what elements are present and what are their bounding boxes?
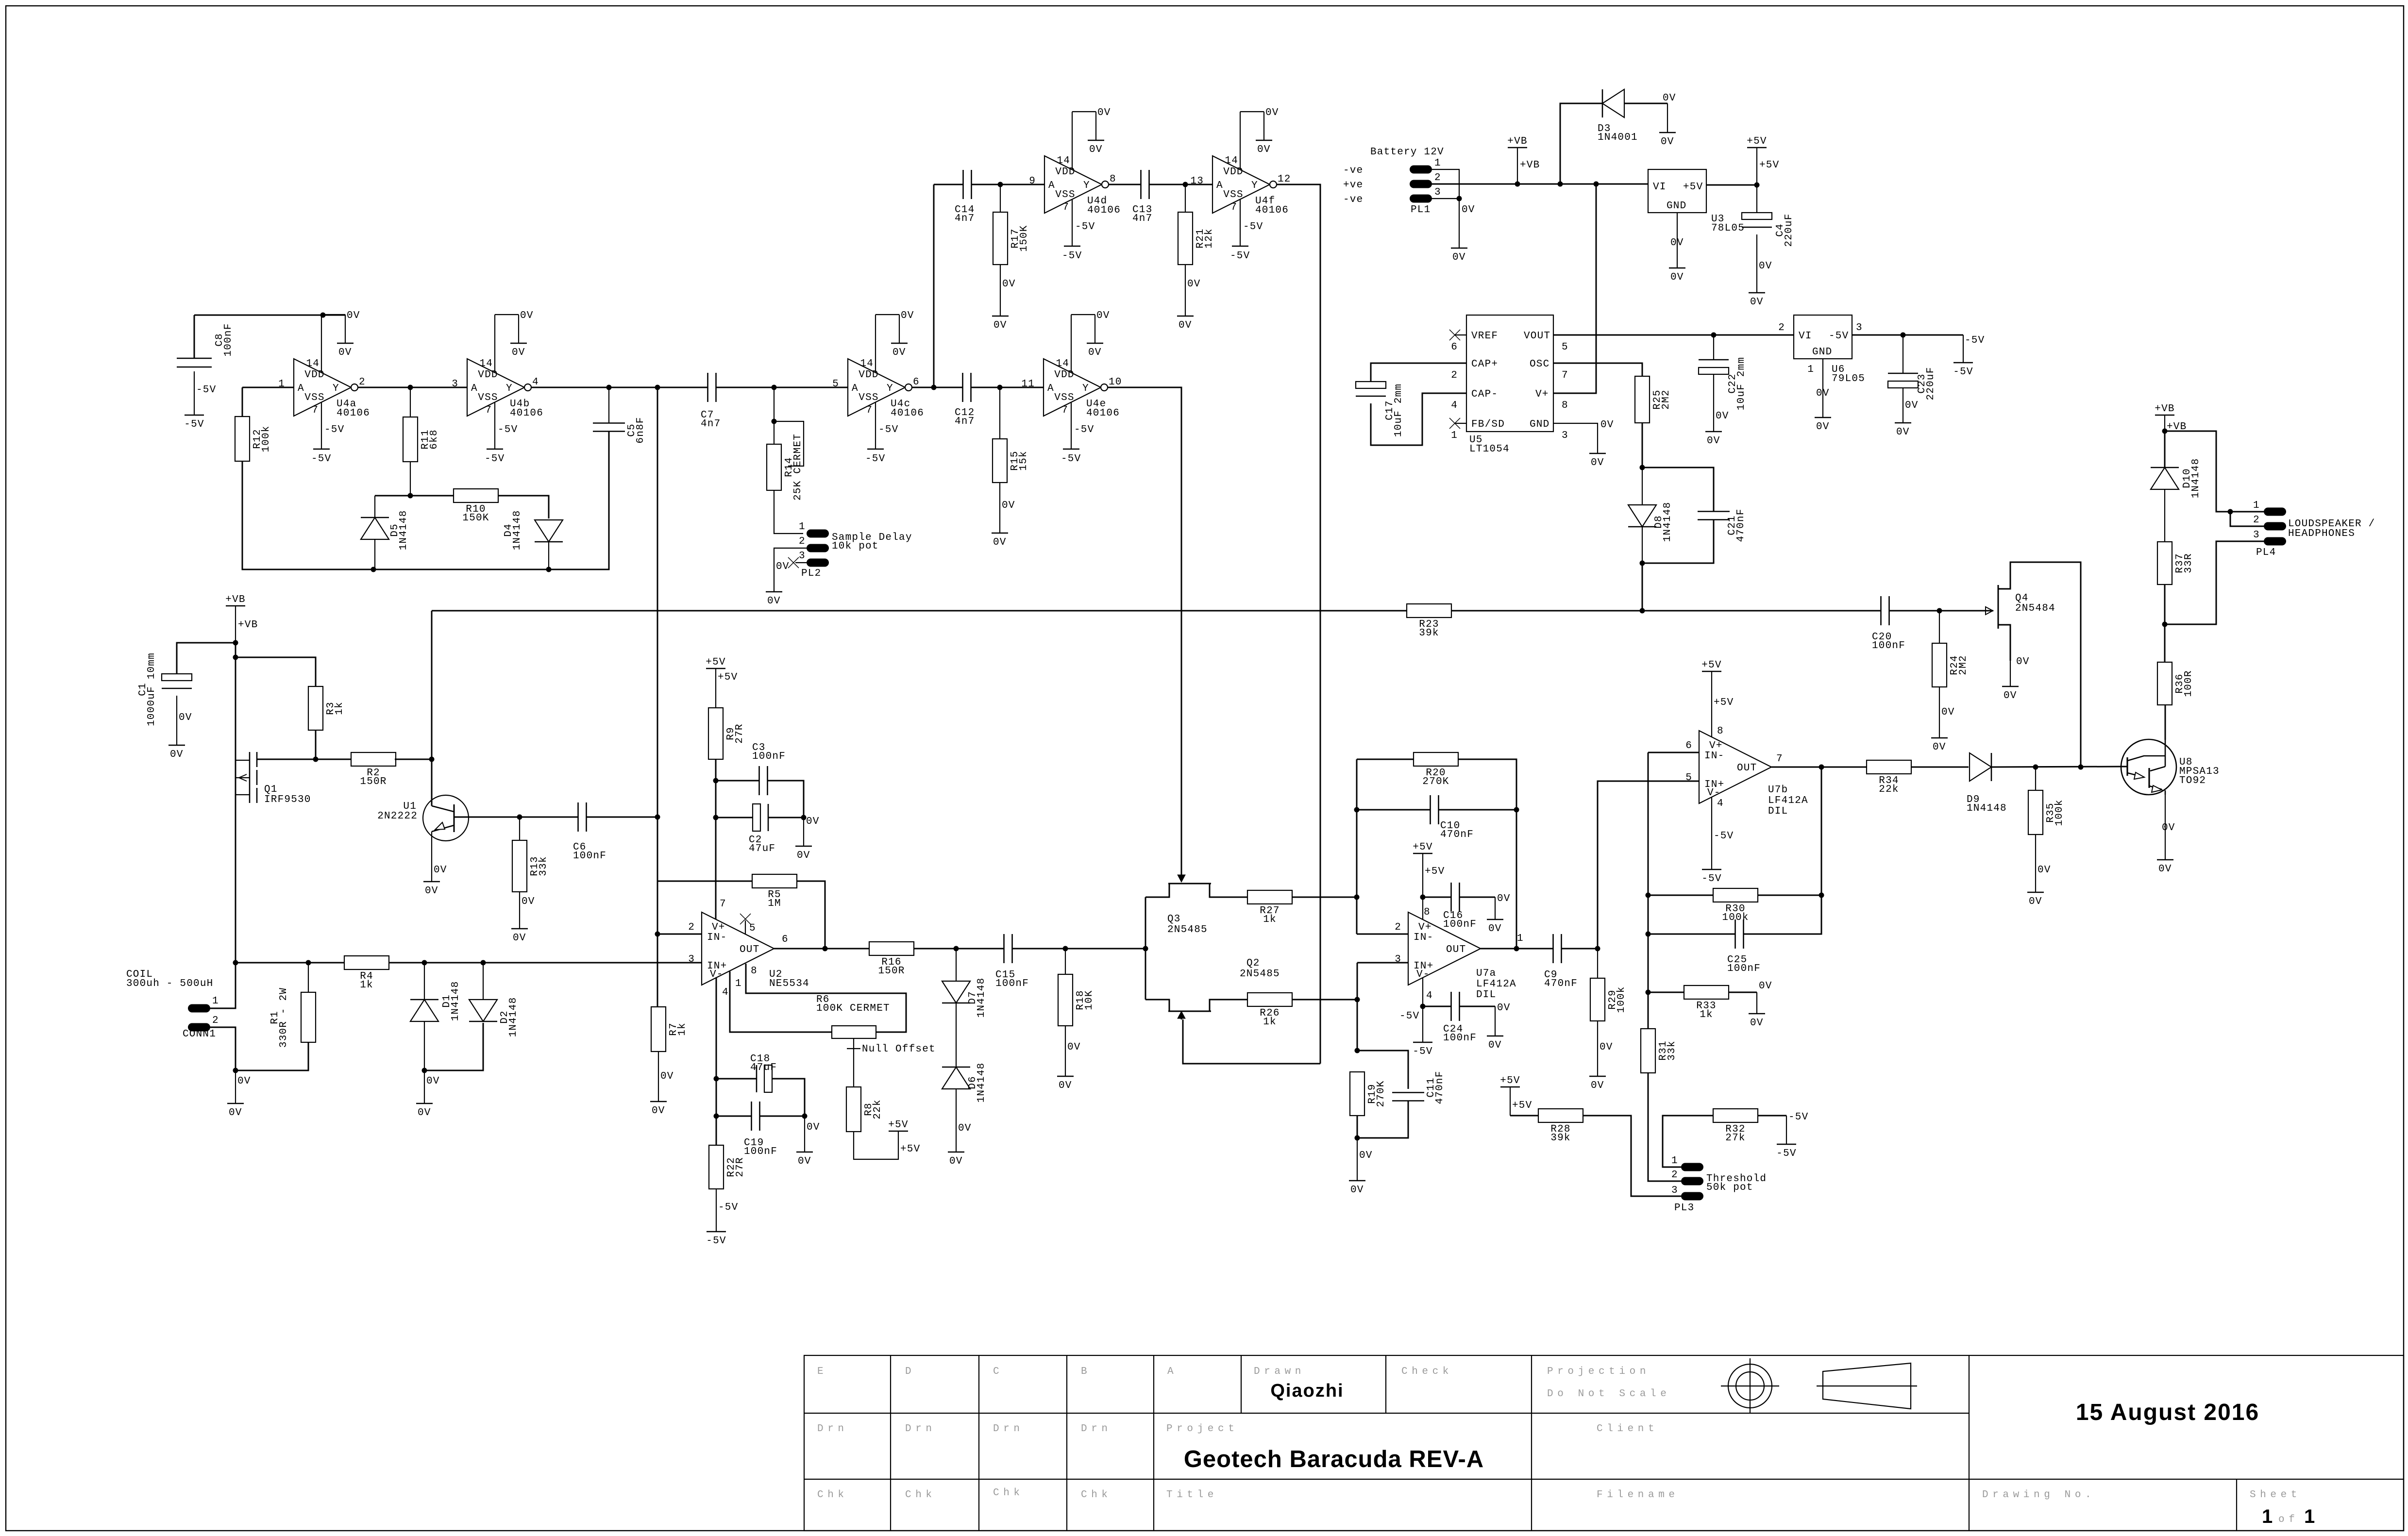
svg-text:50k pot: 50k pot: [1706, 1182, 1753, 1193]
svg-text:33R: 33R: [2183, 553, 2194, 573]
wire C19 gnd: [805, 1116, 820, 1152]
resistor R36: [2157, 662, 2194, 705]
svg-text:Project: Project: [1166, 1423, 1238, 1435]
svg-text:A: A: [298, 383, 304, 394]
wire Q1 gate to R2: [257, 759, 352, 760]
title label Title: [1166, 1489, 1218, 1501]
ground C18C19: [796, 1152, 813, 1167]
wire U4a out: [358, 387, 467, 388]
label U3 78L05: [1711, 214, 1745, 234]
wire D6 bottom: [956, 1089, 972, 1152]
op-amp U7b: [1685, 726, 1808, 817]
svg-text:Qiaozhi: Qiaozhi: [1270, 1381, 1344, 1401]
label Q4 source 0V: [2016, 656, 2030, 668]
svg-text:0V: 0V: [1591, 457, 1604, 468]
svg-text:6: 6: [1685, 740, 1692, 751]
svg-text:-5V: -5V: [1965, 335, 1985, 346]
junction speaker tap: [2162, 622, 2168, 627]
junction Q4 feed: [2078, 765, 2084, 770]
junction U7a out fb: [1514, 946, 1519, 952]
wire D3 gnd stem: [1667, 103, 1668, 133]
svg-text:Sheet: Sheet: [2250, 1489, 2301, 1501]
svg-text:-ve: -ve: [1343, 194, 1363, 205]
wire R17 top: [1000, 184, 1001, 212]
connector CONN1 pin2 pad: [188, 1023, 210, 1032]
wire C4 top: [1756, 185, 1757, 219]
junction U7b out fb: [1819, 765, 1824, 770]
title label D: [905, 1366, 915, 1377]
svg-text:-5V: -5V: [196, 384, 216, 396]
svg-text:1: 1: [1671, 1155, 1678, 1167]
junction R3 tap: [233, 655, 238, 660]
label PL1 -ve 3: [1343, 187, 1441, 205]
wire R13 bottom: [520, 892, 535, 929]
svg-text:7: 7: [720, 899, 726, 910]
svg-text:Drn: Drn: [1081, 1423, 1112, 1435]
svg-text:A: A: [1216, 180, 1223, 191]
svg-text:0V: 0V: [1750, 1018, 1764, 1029]
svg-text:VDD: VDD: [1054, 369, 1074, 381]
title label Client: [1597, 1423, 1658, 1435]
wire C17 bottom / CAP-: [1371, 393, 1466, 445]
svg-text:+5V: +5V: [1701, 660, 1721, 671]
label CONN1 pin2: [212, 1015, 219, 1026]
svg-text:-5V: -5V: [1953, 367, 1973, 378]
wire D4 bottom: [548, 542, 549, 569]
svg-text:V+: V+: [1535, 389, 1549, 400]
svg-text:U7b: U7b: [1768, 785, 1788, 796]
resistor R5: [752, 874, 797, 909]
svg-text:+5V: +5V: [718, 672, 738, 683]
svg-text:27R: 27R: [734, 723, 745, 743]
label U5 pin4: [1451, 400, 1458, 411]
wire R35 top: [2035, 767, 2036, 790]
label PL2 pin2: [799, 536, 806, 547]
svg-text:0V: 0V: [418, 1107, 431, 1119]
svg-text:1000uF 10mm: 1000uF 10mm: [146, 652, 157, 726]
label Null Offset: [862, 1044, 936, 1055]
wire U7a IN+ wire: [1357, 962, 1408, 964]
svg-text:2: 2: [1778, 322, 1785, 334]
svg-text:0V: 0V: [237, 1076, 251, 1087]
wire U1 base line: [454, 817, 520, 818]
resistor R16: [869, 942, 914, 977]
power +5V rail: [1747, 136, 1767, 148]
svg-text:8: 8: [1110, 174, 1116, 185]
wire D7 top: [956, 949, 957, 981]
svg-text:D: D: [905, 1366, 915, 1377]
resistor R12: [235, 417, 272, 461]
junction R2/U1 collector: [429, 757, 435, 762]
title label Chk4: [1081, 1489, 1112, 1501]
svg-text:0V: 0V: [512, 347, 525, 358]
wire C11 bottom: [1357, 1101, 1408, 1138]
wire U3 gnd: [1670, 213, 1684, 268]
wire +5V stem U7a: [1423, 853, 1445, 897]
svg-text:4n7: 4n7: [1132, 213, 1152, 224]
svg-text:0V: 0V: [1816, 421, 1830, 433]
label LOUDSPEAKER: [2288, 518, 2375, 539]
wire R28 +5V: [1510, 1087, 1532, 1116]
svg-text:1: 1: [2304, 1506, 2315, 1527]
wire C22 top: [1713, 335, 1714, 360]
label PL3 pin2: [1671, 1169, 1678, 1181]
svg-text:0V: 0V: [1088, 347, 1102, 358]
svg-text:Q3: Q3: [1167, 914, 1181, 925]
wire PL4 pin2 wire: [2230, 512, 2264, 526]
svg-text:0V: 0V: [1933, 742, 1946, 753]
svg-text:+ve: +ve: [1343, 180, 1363, 191]
wire U4f out down: [1277, 184, 1320, 1064]
wire R11 top: [410, 387, 411, 417]
wire R30 right: [1758, 895, 1821, 896]
svg-text:A: A: [1047, 383, 1054, 394]
svg-text:100nF: 100nF: [1727, 963, 1761, 974]
wire IN- vertical: [1356, 759, 1358, 934]
wire C22 bottom: [1714, 375, 1729, 432]
svg-text:0V: 0V: [1089, 144, 1103, 155]
power +5V U7a: [1413, 842, 1432, 853]
svg-text:0V: 0V: [522, 896, 535, 907]
svg-text:2: 2: [359, 377, 366, 388]
wire U7b pin8: [1712, 671, 1734, 737]
svg-text:22k: 22k: [1879, 784, 1899, 795]
diode D8: [1628, 502, 1673, 542]
junction C19 right: [802, 1114, 808, 1119]
capacitor C12: [955, 373, 975, 427]
svg-text:14: 14: [479, 358, 493, 369]
svg-text:IN-: IN-: [707, 932, 727, 943]
wire coil gnd: [236, 1070, 251, 1103]
wire PL1 pins 1-3 to gnd: [1432, 169, 1475, 248]
wire R28 right to PL3 pin3: [1583, 1116, 1681, 1196]
svg-text:2: 2: [1395, 922, 1401, 933]
wire +VB out stem: [2165, 415, 2187, 433]
svg-text:1M: 1M: [768, 898, 781, 909]
title label Do Not Scale: [1547, 1388, 1670, 1400]
capacitor C4: [1742, 213, 1795, 247]
svg-text:A: A: [1167, 1366, 1178, 1377]
svg-text:150K: 150K: [1019, 225, 1030, 251]
wire C12 right: [971, 387, 1044, 388]
ground PL1: [1451, 248, 1467, 263]
junction +VB out: [2162, 429, 2168, 434]
svg-text:GND: GND: [1812, 347, 1832, 358]
svg-text:A: A: [1048, 180, 1055, 191]
wire C16 gnd stem: [1495, 897, 1496, 919]
title label Drawing No: [1982, 1489, 2095, 1501]
svg-text:0V: 0V: [1097, 107, 1111, 118]
svg-text:V+: V+: [1709, 740, 1723, 751]
inverter U4a: [278, 310, 370, 465]
resistor R17: [993, 212, 1030, 265]
wire R5 right: [797, 881, 825, 949]
svg-text:40106: 40106: [510, 408, 543, 419]
svg-text:-5V: -5V: [1075, 221, 1095, 233]
svg-text:Chk: Chk: [1081, 1489, 1112, 1501]
junction D1 bottom: [422, 1068, 427, 1073]
label U5 pin2: [1451, 370, 1458, 381]
svg-text:0V: 0V: [1750, 297, 1764, 308]
svg-text:Drawing No.: Drawing No.: [1982, 1489, 2095, 1501]
junction C2 right: [801, 815, 807, 820]
svg-text:+5V: +5V: [1759, 160, 1779, 171]
capacitor C24: [1443, 992, 1477, 1044]
svg-text:2N2222: 2N2222: [377, 811, 418, 822]
wire D5 bottom: [374, 539, 375, 569]
wire C24 right: [1460, 1002, 1511, 1014]
svg-text:0V: 0V: [338, 347, 352, 358]
svg-text:0V: 0V: [2016, 656, 2030, 668]
svg-text:100nF: 100nF: [1443, 1033, 1477, 1044]
junction C1 tap: [233, 640, 238, 646]
svg-text:0V: 0V: [1497, 893, 1511, 904]
svg-text:79L05: 79L05: [1832, 373, 1865, 384]
resistor R25: [1635, 376, 1672, 423]
resistor R35: [2028, 790, 2065, 835]
junction D3 branch: [1558, 182, 1563, 187]
inverter U4b: [452, 310, 543, 465]
svg-text:1: 1: [278, 379, 285, 390]
svg-text:-5V: -5V: [718, 1202, 738, 1213]
wire C16 left: [1423, 897, 1451, 898]
wire Q4 source gnd: [2010, 661, 2011, 686]
svg-text:-5V: -5V: [1413, 1046, 1432, 1057]
svg-text:5: 5: [1562, 342, 1568, 353]
wire C24 left: [1423, 1006, 1451, 1007]
capacitor C22: [1699, 357, 1747, 410]
svg-text:PL2: PL2: [801, 568, 821, 579]
power +VB out: [2155, 403, 2174, 415]
svg-text:4n7: 4n7: [701, 418, 721, 430]
svg-text:VDD: VDD: [1055, 167, 1075, 178]
wire U5 VREF stub: [1455, 334, 1466, 335]
wire C23 bottom: [1903, 388, 1919, 423]
wire OSC down: [1553, 363, 1642, 376]
wire C1 top: [177, 643, 236, 680]
wire D10 bottom: [2164, 489, 2165, 542]
capacitor C1: [137, 652, 192, 726]
svg-text:10uF 2mm: 10uF 2mm: [1736, 357, 1747, 410]
transistor Q2: [1145, 958, 1280, 1019]
svg-text:0V: 0V: [2158, 864, 2172, 875]
no-connect U5 FB/SD: [1449, 418, 1460, 429]
wire C18 left: [716, 1078, 757, 1080]
wire D8 to sample rail: [1642, 563, 1643, 611]
label CONN1 pin1: [212, 996, 219, 1007]
svg-text:2N5484: 2N5484: [2015, 603, 2055, 614]
wire D1 top: [424, 963, 425, 1000]
svg-text:0V: 0V: [1096, 310, 1110, 321]
svg-text:4: 4: [1426, 990, 1433, 1002]
svg-text:-5V: -5V: [498, 424, 518, 435]
svg-text:5: 5: [832, 379, 839, 390]
svg-text:2N5485: 2N5485: [1167, 924, 1208, 935]
svg-text:Y: Y: [887, 383, 893, 394]
svg-text:Q1: Q1: [264, 784, 278, 795]
wire D5 top: [375, 496, 454, 518]
capacitor C18: [750, 1053, 777, 1092]
svg-text:1N4148: 1N4148: [2190, 458, 2202, 499]
title label E: [817, 1366, 827, 1377]
wire R6 wiper: [847, 1038, 860, 1087]
svg-text:0V: 0V: [1359, 1150, 1373, 1161]
svg-text:0V: 0V: [1002, 500, 1015, 511]
transistor U1: [377, 795, 469, 882]
svg-text:14: 14: [306, 358, 320, 369]
wire D8 bottom: [1642, 527, 1643, 563]
junction coil: [233, 960, 238, 966]
svg-text:0V: 0V: [1350, 1185, 1364, 1196]
resistor R9: [708, 708, 745, 759]
label PL2 pin1: [799, 521, 806, 533]
resistor R4: [344, 956, 389, 991]
label Sample Delay: [832, 532, 912, 552]
wire C7 right: [716, 387, 848, 388]
wire R32 left from PL3 pin1: [1663, 1116, 1713, 1167]
svg-text:0V: 0V: [993, 537, 1007, 548]
svg-text:Projection: Projection: [1547, 1366, 1650, 1377]
resistor R26: [1247, 993, 1292, 1028]
svg-text:0V: 0V: [1488, 1040, 1502, 1051]
svg-text:1k: 1k: [1263, 1017, 1277, 1028]
svg-text:1k: 1k: [677, 1022, 688, 1036]
wire R3 bottom: [315, 730, 317, 759]
wire C6 right: [587, 817, 657, 818]
svg-text:270K: 270K: [1422, 776, 1449, 787]
wire D3 up: [1560, 103, 1602, 184]
svg-text:470nF: 470nF: [1544, 978, 1578, 989]
svg-text:0V: 0V: [513, 933, 526, 944]
ground U5: [1589, 453, 1606, 468]
title label Filename: [1597, 1489, 1679, 1501]
title label A: [1167, 1366, 1178, 1377]
resistor R19: [1350, 1072, 1387, 1116]
capacitor C5: [593, 417, 646, 443]
wire R10 right: [498, 496, 549, 518]
svg-text:3: 3: [1856, 322, 1863, 334]
wire Q4 drain link: [2010, 562, 2081, 767]
svg-text:-5V: -5V: [1829, 331, 1849, 342]
svg-text:Chk: Chk: [993, 1487, 1024, 1499]
wire sample rail vertical: [431, 611, 433, 795]
ground R17: [992, 316, 1009, 331]
wire C1 bottom: [177, 696, 192, 745]
title block grid: [804, 1355, 2404, 1531]
svg-text:15 August 2016: 15 August 2016: [2076, 1400, 2259, 1425]
svg-text:1k: 1k: [1263, 914, 1277, 925]
transistor U8: [2121, 739, 2220, 795]
svg-text:VDD: VDD: [304, 369, 324, 381]
inverter U4e: [1021, 310, 1122, 465]
wire R34 right: [1911, 767, 1969, 768]
svg-text:0V: 0V: [767, 596, 781, 607]
svg-text:VI: VI: [1653, 182, 1667, 193]
title text project name: [1184, 1446, 1484, 1472]
svg-text:IN-: IN-: [1414, 932, 1433, 943]
svg-text:+VB: +VB: [2155, 403, 2174, 415]
wire base to C6: [520, 817, 578, 818]
svg-text:V+: V+: [1418, 922, 1432, 933]
wire C20 right: [1889, 610, 1993, 612]
junction +VB stem: [1515, 182, 1520, 187]
svg-text:Title: Title: [1166, 1489, 1218, 1501]
svg-text:Do Not Scale: Do Not Scale: [1547, 1388, 1670, 1400]
svg-text:2: 2: [688, 922, 695, 933]
svg-text:3: 3: [452, 379, 458, 390]
diode D1: [410, 981, 461, 1021]
svg-text:14: 14: [1225, 155, 1238, 167]
svg-text:0V: 0V: [520, 310, 534, 321]
svg-text:1N4148: 1N4148: [1967, 803, 2007, 814]
wire U2 pin5 stub: [745, 920, 746, 935]
label PL4 pin2: [2253, 515, 2260, 526]
svg-text:0V: 0V: [1661, 136, 1674, 148]
wire U4d out: [1109, 184, 1141, 185]
svg-text:0V: 0V: [1488, 923, 1502, 935]
svg-text:Battery 12V: Battery 12V: [1370, 147, 1444, 158]
resistor R34: [1867, 760, 1911, 795]
title text sheet 1 of 1: [2262, 1506, 2315, 1527]
svg-text:A: A: [471, 383, 478, 394]
no-connect U2 pin5: [740, 914, 751, 924]
capacitor C21: [1698, 508, 1747, 542]
svg-text:0V: 0V: [1670, 237, 1684, 249]
svg-text:40106: 40106: [337, 408, 370, 419]
svg-text:0V: 0V: [170, 749, 184, 760]
svg-text:1N4001: 1N4001: [1598, 132, 1638, 143]
wire C16 right: [1460, 893, 1511, 904]
svg-text:-5V: -5V: [1061, 453, 1081, 465]
svg-text:E: E: [817, 1366, 827, 1377]
label U1 emitter 0V: [434, 865, 447, 876]
svg-text:2: 2: [1451, 370, 1458, 381]
ground U8: [2157, 860, 2173, 875]
wire V+ drop to U5: [1553, 184, 1596, 393]
svg-text:3: 3: [1395, 954, 1401, 965]
svg-text:0V: 0V: [2029, 896, 2042, 907]
title label Check: [1401, 1366, 1453, 1377]
capacitor C9: [1544, 934, 1578, 989]
ground C23: [1895, 423, 1911, 438]
wire U7b pin4: [1712, 797, 1734, 869]
wire U4b out: [531, 387, 708, 388]
svg-text:LF412A: LF412A: [1476, 979, 1516, 990]
junction U4a VDD rail: [320, 313, 326, 318]
wire U7a pin4: [1422, 977, 1423, 1006]
junction PL4 pin2 link: [2228, 509, 2233, 515]
junction Q block: [1143, 946, 1148, 952]
resistor R29: [1590, 978, 1627, 1021]
capacitor C8 top wire: [194, 315, 195, 358]
svg-text:13: 13: [1190, 176, 1204, 187]
junction IN- node: [655, 932, 660, 937]
svg-text:330R - 2W: 330R - 2W: [278, 987, 289, 1048]
capacitor C19: [744, 1102, 777, 1157]
IC U5 box: [1466, 315, 1553, 432]
op-amp U7a: [1395, 907, 1524, 1002]
svg-text:IN-: IN-: [1704, 751, 1724, 762]
svg-text:100K CERMET: 100K CERMET: [816, 1003, 890, 1014]
wire +5V stem: [1757, 148, 1779, 185]
svg-text:2N5485: 2N5485: [1240, 968, 1280, 980]
svg-text:-5V: -5V: [1701, 873, 1721, 885]
svg-text:0V: 0V: [1591, 1080, 1604, 1091]
svg-text:PL3: PL3: [1674, 1202, 1694, 1214]
svg-text:220uF: 220uF: [1784, 213, 1795, 247]
resistor R1: [269, 987, 316, 1048]
svg-text:8: 8: [1424, 907, 1431, 918]
